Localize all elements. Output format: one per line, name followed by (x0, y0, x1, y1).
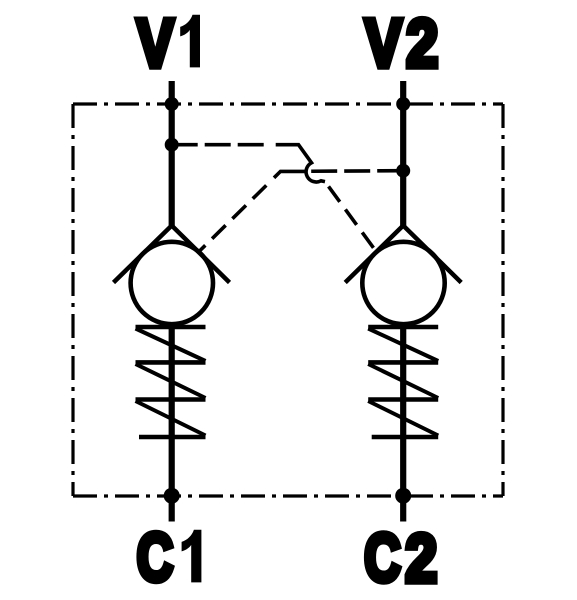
spring S1 coil 3 diagonal (136, 401, 206, 436)
check valve CV1 seat (114, 226, 230, 283)
pilot line P1 corner and crossover hop (276, 145, 325, 182)
enclosure boundary (dash-dot box) top edge (73, 102, 503, 105)
spring S2 coil 2 horizontal (368, 360, 438, 365)
port label C1 (137, 519, 202, 595)
junction node V1 pilot tap (165, 138, 179, 152)
svg-text:C: C (364, 520, 400, 596)
spring S1 coil 3 horizontal (136, 397, 206, 402)
check valve CV2 seat (345, 226, 461, 283)
pilot line P2 corner (274, 171, 306, 177)
junction node V2 pilot tap (396, 164, 410, 178)
check valve CV1 ball (131, 242, 213, 324)
junction node C1 at boundary (164, 488, 180, 504)
spring S2 coil 1 horizontal (368, 325, 438, 330)
enclosure boundary left edge (71, 104, 74, 496)
svg-text:V: V (365, 6, 402, 82)
junction node V1 at boundary (165, 97, 179, 111)
spring S2 coil 3 horizontal (368, 397, 438, 402)
pilot line P1 horizontal segment (from node V1, dashed) (172, 143, 269, 147)
wire C1 vertical (valve to port C1) (169, 325, 175, 522)
spring S1 coil 2 horizontal (136, 360, 206, 365)
svg-text:2: 2 (405, 521, 437, 597)
junction node V2 at boundary (396, 97, 410, 111)
pilot line P1 diagonal segment to CV2 ball (dashed) (325, 182, 374, 249)
port label V2 (365, 6, 438, 82)
port label V1 (137, 6, 200, 82)
spring S2 coil 1 diagonal (368, 329, 438, 362)
enclosure boundary right edge (501, 104, 504, 496)
spring S1 coil 2 diagonal (136, 364, 206, 398)
spring S1 coil 1 diagonal (136, 329, 206, 362)
wire V2 vertical (port V2 to valve seat) (400, 81, 406, 228)
spring S1 coil 4 horizontal (139, 435, 206, 440)
pilot line P2 horizontal segment (from node V2, dashed) (305, 169, 403, 173)
spring S2 coil 2 diagonal (368, 364, 438, 398)
port label C2 (364, 520, 437, 597)
wire C2 vertical (valve to port C2) (400, 325, 406, 522)
wire V1 vertical (port V1 to valve seat) (169, 81, 175, 228)
spring S1 coil 1 horizontal (136, 325, 206, 330)
spring S2 coil 4 horizontal (372, 435, 439, 440)
enclosure boundary bottom edge (73, 494, 503, 497)
svg-text:2: 2 (406, 6, 438, 82)
pilot line P2 diagonal segment to CV1 ball (dashed) (199, 185, 267, 252)
check valve CV2 ball (362, 242, 444, 324)
spring S2 coil 3 diagonal (368, 401, 438, 436)
svg-text:V: V (137, 6, 174, 82)
junction node C2 at boundary (395, 488, 411, 504)
svg-text:C: C (137, 519, 173, 595)
